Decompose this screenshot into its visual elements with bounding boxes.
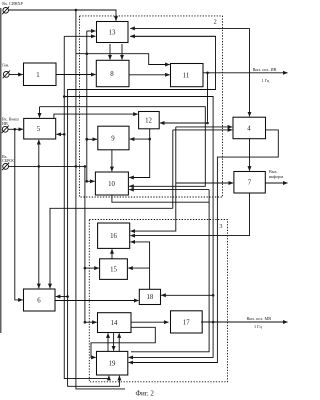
- wire 1 to 8: [56, 74, 96, 76]
- block 4: [233, 117, 266, 139]
- junction feeding block 6 right: [66, 295, 69, 298]
- wire into 7 left: [176, 182, 233, 184]
- wire x14.8 from Vnesh line down to 6 left: [15, 129, 23, 300]
- wire 14-19 vertical b: [113, 333, 115, 351]
- wire x207.5 down from output line: [207, 73, 209, 122]
- svg-text:4: 4: [247, 125, 251, 132]
- svg-text:Вых. исх. МВ: Вых. исх. МВ: [247, 316, 272, 321]
- wire into 6 right: [56, 296, 68, 298]
- wire SINHR distribution y53.7: [76, 54, 170, 65]
- svg-text:17: 17: [183, 319, 190, 326]
- wire stub into 12 right: [160, 122, 208, 124]
- junction feeding block 12: [206, 122, 209, 125]
- svg-text:19: 19: [109, 361, 116, 368]
- block 16: [98, 223, 130, 248]
- svg-text:12: 12: [145, 118, 152, 125]
- junction SBROS to reset bus: [84, 165, 87, 168]
- block 6: [24, 289, 56, 311]
- wire 5 top to 12 left: [54, 114, 138, 118]
- wire stub 18 right: [161, 294, 213, 296]
- svg-text:1: 1: [36, 72, 39, 79]
- wire 6 top feed y208.3: [50, 208, 173, 288]
- wire x209.1 from 10 right down: [131, 190, 209, 352]
- terminal Vx.SINHR: [3, 8, 9, 14]
- wire stub to 10 left: [87, 180, 95, 182]
- svg-text:9: 9: [111, 135, 115, 142]
- svg-text:11: 11: [183, 73, 190, 80]
- wire feedback bus x64.25 top to 13 left b: [64, 35, 95, 37]
- block 11: [171, 64, 204, 87]
- wire stub 15 right: [128, 267, 149, 269]
- block 13: [97, 22, 129, 43]
- svg-text:5: 5: [37, 126, 41, 133]
- wire 11 to output IV: [203, 72, 288, 74]
- svg-text:8: 8: [110, 71, 114, 78]
- wire 13 to 8 b: [121, 44, 123, 60]
- svg-text:ИВ: ИВ: [2, 121, 8, 126]
- wire SBROS line: [9, 165, 85, 167]
- wire 9 to 10: [111, 150, 113, 171]
- wire SBROS up into 5 bottom: [38, 140, 40, 167]
- wire 16 right c from x149.6: [131, 242, 150, 289]
- wire x172.8 to 4 left b: [172, 130, 174, 208]
- wire 7 to output inform: [265, 182, 287, 184]
- wire 4 loop right down to 19: [129, 130, 279, 363]
- wire 13 right feed b long loop: [68, 36, 216, 386]
- wire stub to 13 left a: [87, 30, 96, 32]
- svg-text:15: 15: [110, 267, 117, 274]
- svg-text:Ген.: Ген.: [2, 63, 9, 68]
- wire 14 loop to 19 left: [91, 327, 155, 357]
- wire 4 to 7: [249, 139, 251, 171]
- junction on IV output line: [206, 72, 209, 75]
- svg-text:14: 14: [111, 320, 118, 327]
- block 7: [234, 172, 265, 194]
- block 10: [95, 172, 128, 195]
- junction feeding block 14 left: [84, 321, 87, 324]
- svg-text:18: 18: [147, 294, 154, 301]
- wire y96.5 branch to right and down to 19: [64, 97, 213, 358]
- wire SINHR main: [9, 10, 116, 21]
- wire Vnesh IV to 5: [8, 128, 23, 130]
- svg-text:3: 3: [219, 223, 222, 230]
- block 12: [139, 112, 160, 129]
- block 19: [97, 351, 128, 375]
- wire 14-19 vertical a: [107, 333, 109, 351]
- block 18: [139, 289, 160, 304]
- wire stub 9 right: [130, 138, 150, 140]
- svg-text:7: 7: [248, 180, 252, 187]
- svg-text:Вых. исх. ИВ: Вых. исх. ИВ: [253, 67, 277, 72]
- scan page edge artifact: [0, 8, 2, 333]
- wire 6 to 18 left: [55, 300, 139, 302]
- wire x249 down into 4 top: [249, 28, 251, 116]
- svg-text:Вх. СИНХР: Вх. СИНХР: [2, 1, 23, 6]
- block 8: [96, 60, 129, 86]
- wire SINHR vertical x76: [76, 10, 125, 389]
- svg-text:13: 13: [109, 30, 116, 37]
- wire SBROS down into 6 top: [38, 166, 40, 288]
- junction feeding block 15 left: [84, 267, 87, 270]
- dashed box 2: [80, 16, 223, 197]
- terminal Vx.SBROS: [3, 164, 9, 170]
- wire 7 bottom to 16 right b: [131, 193, 250, 236]
- wire y106.7 line into 5 top and right to 10: [40, 107, 206, 187]
- junction on Vnesh IV line: [14, 128, 17, 131]
- junction feeding block 9 right: [148, 138, 151, 141]
- svg-text:1 Гц: 1 Гц: [262, 78, 271, 83]
- svg-text:Фиг. 2: Фиг. 2: [136, 390, 155, 398]
- svg-text:2: 2: [214, 19, 217, 26]
- block 15: [100, 259, 128, 280]
- junction on clock distribution line: [86, 52, 89, 55]
- junction on MV output line: [212, 321, 215, 324]
- wire 12 down to 9 and 10: [129, 129, 150, 178]
- block 17: [171, 311, 203, 333]
- junction feeding block 18 right: [212, 294, 215, 297]
- wire clock bus x86.8: [86, 31, 88, 181]
- wire 5 right input from bus: [57, 133, 65, 135]
- svg-text:16: 16: [110, 233, 117, 240]
- wire 17 to output MV: [201, 321, 288, 323]
- dashed box 3: [89, 220, 227, 382]
- block 14: [98, 313, 132, 333]
- junction SBROS crossing: [75, 165, 78, 168]
- svg-text:1 Гц: 1 Гц: [254, 324, 263, 329]
- svg-text:10: 10: [108, 181, 115, 188]
- wire stub 10 right b: [129, 189, 209, 191]
- wire 15 to 16: [111, 249, 113, 259]
- wire feedback bus x64.25 vertical: [64, 36, 109, 378]
- terminal Vx.Vnesh IV: [2, 126, 8, 132]
- svg-text:информ.: информ.: [269, 174, 284, 179]
- wire 14 to 17: [131, 321, 169, 323]
- wire 14-19 vertical c: [118, 333, 120, 351]
- wire stub 14 left: [85, 321, 97, 323]
- block 5: [24, 118, 56, 139]
- junction feeding block 10 left: [86, 180, 89, 183]
- junction on SBROS line: [38, 165, 41, 168]
- junction on SINHR line: [75, 9, 78, 12]
- junction feeding block 9 left: [85, 138, 88, 141]
- wire 8 to 11: [129, 74, 170, 76]
- wire 10 bottom loop right: [112, 195, 209, 202]
- wire stub 15 left: [85, 267, 99, 269]
- svg-text:СБРОС: СБРОС: [2, 158, 15, 163]
- junction feeding block 5 right: [63, 133, 66, 136]
- block 1: [24, 63, 57, 86]
- svg-text:6: 6: [37, 297, 41, 304]
- junction on feedback bus: [63, 95, 66, 98]
- wire 13 right feed a from x249: [130, 27, 249, 29]
- block 9: [98, 126, 129, 150]
- wire x84.9 resets down: [84, 166, 86, 322]
- wire 13 to 8 a: [109, 44, 111, 60]
- wire stub to 9 left a: [87, 138, 97, 140]
- wire Gen to 1: [9, 74, 23, 76]
- terminal Gen: [3, 72, 9, 78]
- wire x175.8 to 4 left a and 16 right a: [131, 127, 176, 231]
